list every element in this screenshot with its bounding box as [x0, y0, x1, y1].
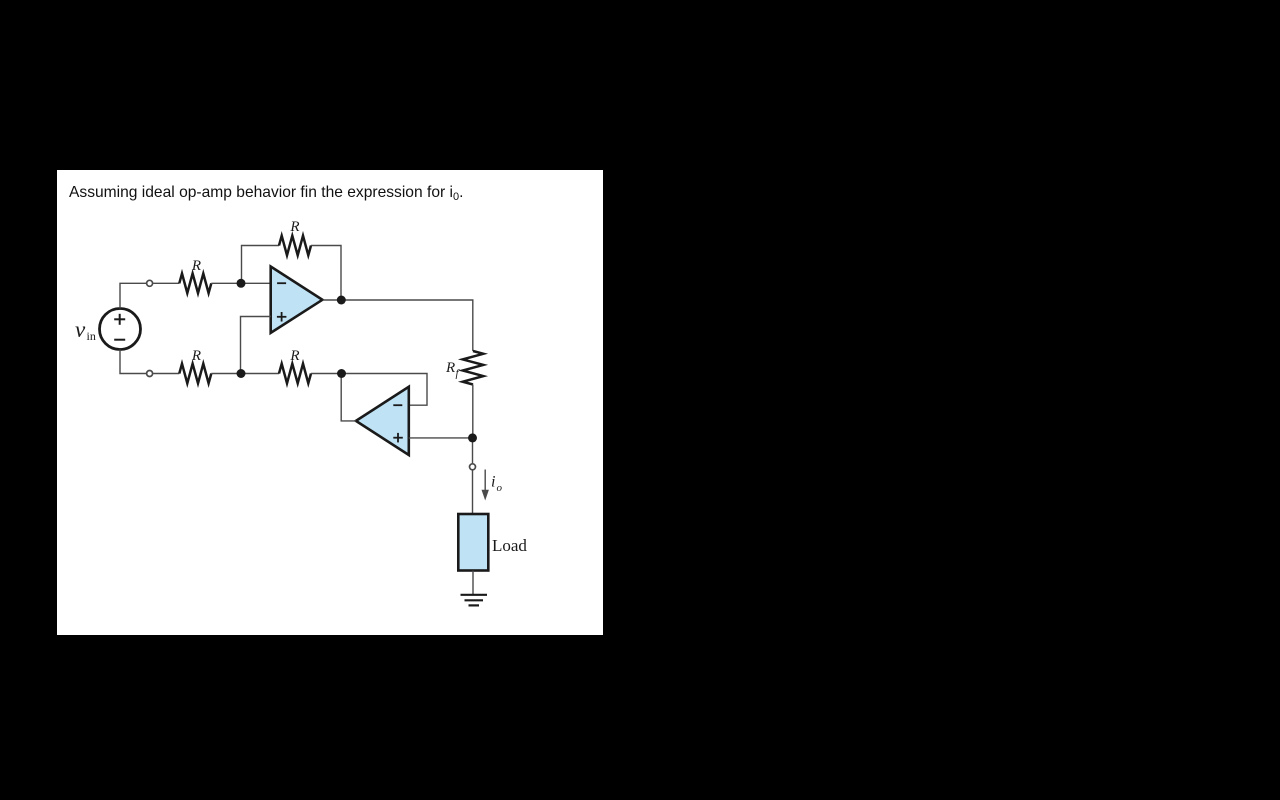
resistor R4 — [279, 364, 311, 384]
svg-text:Load: Load — [492, 536, 527, 555]
wire U1 output to Rf top — [323, 300, 473, 351]
op-amp U2 — [356, 387, 409, 455]
wire T2 to R3 — [153, 373, 179, 375]
wire Rf bottom to node4 — [472, 385, 474, 438]
svg-text:R: R — [289, 219, 299, 235]
wire node3 to U2 minus input — [342, 374, 428, 406]
svg-text:v: v — [75, 317, 86, 342]
op-amp U1 — [271, 267, 323, 333]
terminal T3 — [470, 464, 476, 470]
wire node1 to U1 minus input — [241, 282, 271, 284]
wire R3 to node2 — [211, 373, 241, 375]
resistor R1 — [179, 274, 211, 294]
ground — [461, 595, 488, 606]
wire feedback left vertical — [242, 246, 280, 284]
wire U2 apex to node3 — [341, 374, 356, 421]
node 1 — [237, 279, 246, 288]
svg-text:i: i — [491, 474, 495, 491]
wire source bottom stub — [120, 350, 146, 374]
node 2 — [237, 369, 246, 378]
svg-text:o: o — [497, 482, 503, 494]
resistor R2 feedback — [279, 236, 311, 256]
svg-text:R: R — [289, 348, 299, 364]
label Rf — [445, 360, 461, 380]
resistor R3 — [179, 364, 211, 384]
svg-text:in: in — [87, 329, 96, 343]
svg-text:f: f — [456, 368, 461, 380]
wire U2 plus to node4 — [409, 437, 473, 439]
wire node4 to terminal T3 — [472, 438, 474, 463]
wire node2 to R4 — [241, 373, 279, 375]
wire T3 to load — [472, 471, 474, 515]
wire feedback right vertical to output — [311, 246, 341, 301]
wire R4 to node3 — [311, 373, 342, 375]
wire load to ground — [472, 571, 474, 595]
label io — [491, 474, 503, 495]
terminal T1 — [147, 280, 153, 286]
wire U1 plus input — [241, 317, 271, 374]
svg-text:R: R — [191, 258, 201, 274]
wire T1 to R1 — [153, 282, 179, 284]
node 4 — [468, 433, 477, 442]
current arrow io — [482, 470, 489, 501]
node U1 output — [337, 296, 346, 305]
svg-text:R: R — [445, 360, 455, 376]
load — [458, 514, 488, 571]
label vin — [75, 317, 96, 343]
wire source top stub — [120, 283, 146, 308]
terminal T2 — [147, 371, 153, 377]
wire R1 to node1 — [211, 282, 241, 284]
resistor Rf — [463, 351, 484, 385]
svg-text:R: R — [191, 348, 201, 364]
voltage source Vin — [100, 309, 141, 350]
node 3 — [337, 369, 346, 378]
